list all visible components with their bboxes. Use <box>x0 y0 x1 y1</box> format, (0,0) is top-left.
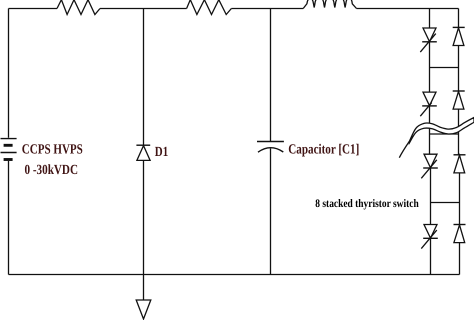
wire: thyristor rail Q3-Q4 <box>430 168 432 225</box>
wire: diode rail DS3-DS4 <box>459 173 461 225</box>
svg-text:D1: D1 <box>155 145 168 160</box>
wire: diode rail corner from top bus <box>458 9 460 28</box>
wire: thyristor rail bottom <box>430 238 432 274</box>
wire: diode rail bottom <box>459 243 461 275</box>
wire: stack link 3 <box>431 202 460 204</box>
inductor (charging coil) <box>303 0 356 9</box>
battery CCPS HVPS <box>1 139 17 160</box>
wire: stack link 1 <box>430 67 459 69</box>
thyristor Q1 <box>420 28 437 52</box>
resistor 1 (top-left) <box>57 0 100 15</box>
resistor 2 (top-middle) <box>187 0 232 15</box>
wire: stack link 2 <box>430 133 459 135</box>
diode DS3 <box>454 155 466 173</box>
wire: capacitor branch to bottom bus <box>270 149 272 275</box>
wire: left source rail (top) <box>8 9 10 138</box>
wire: bottom bus <box>9 274 460 276</box>
thyristor Q4 <box>421 225 438 249</box>
svg-text:8 stacked thyristor switch: 8 stacked thyristor switch <box>315 198 419 210</box>
wire: thyristor rail Q1-Q2 <box>429 42 431 92</box>
ground <box>136 300 151 319</box>
wire: top bus between resistor 2 and inductor <box>231 8 303 10</box>
capacitor C1 <box>257 142 284 153</box>
thyristor Q2 <box>420 92 437 116</box>
svg-text:0 -30kVDC: 0 -30kVDC <box>25 163 79 178</box>
wire: thyristor rail Q2-Q3 <box>429 106 431 154</box>
thyristor Q3 <box>421 154 438 178</box>
wire: left source rail (bottom) <box>8 161 10 275</box>
diode DS4 <box>454 225 466 243</box>
diode DS1 <box>453 27 465 45</box>
wire: top bus between resistors <box>100 8 187 10</box>
wire: thyristor rail top <box>429 9 431 29</box>
wire: diode rail DS1-DS2 <box>458 46 460 92</box>
wire: top bus left segment <box>9 8 58 10</box>
diode DS2 <box>453 91 465 109</box>
wire: capacitor branch from top bus <box>270 9 272 142</box>
svg-text:CCPS HVPS: CCPS HVPS <box>22 143 83 158</box>
wire: top bus right segment <box>357 8 459 10</box>
wire: D1 branch to ground <box>143 160 145 300</box>
wire: diode rail DS2-DS3 <box>458 109 460 155</box>
svg-text:Capacitor [C1]: Capacitor [C1] <box>288 143 359 158</box>
break squiggle (stack continuation mark) <box>399 118 474 158</box>
wire: D1 branch from top bus <box>143 9 145 146</box>
diode D1 <box>136 145 150 160</box>
